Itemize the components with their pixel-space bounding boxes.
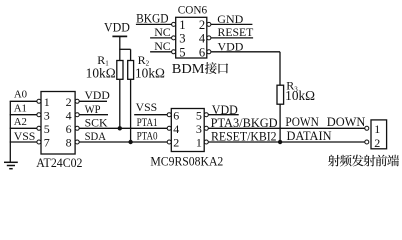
connector CON6 body <box>176 17 207 58</box>
wire VDD bar to R1 top <box>119 36 121 60</box>
pin circle 6 <box>75 126 79 130</box>
pin circle 4 <box>207 36 211 40</box>
wire VSS stub MCU <box>134 114 167 116</box>
pin circle 4 <box>75 113 79 117</box>
svg-text:3: 3 <box>44 108 50 122</box>
svg-text:5: 5 <box>179 46 185 60</box>
svg-text:NC: NC <box>154 25 171 39</box>
pin circle 2 <box>207 22 211 26</box>
junction R3-DATAIN <box>278 140 282 144</box>
pin circle 3 <box>37 113 41 117</box>
wire down to R2 top <box>130 49 132 61</box>
svg-text:BDM: BDM <box>172 62 205 77</box>
svg-text:VSS: VSS <box>136 102 158 114</box>
svg-text:5: 5 <box>44 122 50 136</box>
svg-text:2: 2 <box>199 18 205 32</box>
svg-text:POWN: POWN <box>285 115 319 129</box>
svg-text:DOWN: DOWN <box>327 115 366 129</box>
svg-text:7: 7 <box>44 136 50 150</box>
wire R3 to RESET/KBI2 net <box>279 104 281 142</box>
pin circle 3 <box>172 36 176 40</box>
wire SDA to MCU PTA0 <box>79 141 167 143</box>
svg-text:2: 2 <box>66 95 72 109</box>
svg-text:1: 1 <box>44 95 50 109</box>
svg-text:6: 6 <box>173 108 179 122</box>
svg-text:3: 3 <box>179 32 185 46</box>
connector J1 RF body <box>371 120 387 149</box>
svg-text:CON6: CON6 <box>178 5 208 17</box>
pin circle 8 <box>75 140 79 144</box>
svg-text:2: 2 <box>173 136 179 150</box>
svg-text:1: 1 <box>179 18 185 32</box>
svg-text:RESET: RESET <box>218 25 254 39</box>
wire PTA3 to RF pin1 (POWN DOWN) <box>208 127 364 129</box>
svg-text:10kΩ: 10kΩ <box>285 88 315 103</box>
wire GND stub <box>211 23 253 25</box>
resistor R1 body <box>117 61 123 80</box>
svg-text:A0: A0 <box>14 89 27 101</box>
wire VDD to R3 <box>211 51 280 53</box>
wire R1 to SCK net <box>119 79 121 128</box>
svg-text:A1: A1 <box>14 103 27 115</box>
wire A0 stub <box>10 100 37 102</box>
pin circle 2 <box>75 99 79 103</box>
junction R1-SCK <box>118 126 122 130</box>
svg-text:SCK: SCK <box>85 115 108 129</box>
IC U1 AT24C02 body <box>41 92 75 155</box>
svg-text:A2: A2 <box>14 116 27 128</box>
wire RESET/KBI2 to RF pin2 (DATAIN) <box>208 141 364 143</box>
pin circle RF 2 <box>365 140 369 144</box>
pin circle 5 <box>37 126 41 130</box>
pin circle RF 1 <box>365 126 369 130</box>
svg-text:1: 1 <box>196 136 202 150</box>
svg-text:6: 6 <box>199 46 205 60</box>
svg-text:SDA: SDA <box>85 129 107 143</box>
wire SCK to MCU PTA1 <box>79 127 167 129</box>
IC U2 MC9RS08KA2 body <box>171 109 204 152</box>
wire VSS stub <box>10 141 37 143</box>
pin circle 5 <box>204 113 208 117</box>
svg-text:WP: WP <box>85 102 101 116</box>
svg-text:1: 1 <box>374 122 380 136</box>
wire A2 stub <box>10 127 37 129</box>
pin circle 6 <box>207 50 211 54</box>
wire branch to R2 <box>119 48 130 50</box>
pin circle 6 <box>167 113 171 117</box>
wire RESET stub <box>211 37 253 39</box>
svg-text:10kΩ: 10kΩ <box>86 66 116 81</box>
svg-text:4: 4 <box>199 32 206 46</box>
svg-text:PTA0: PTA0 <box>137 131 158 143</box>
label RF transmit front-end <box>328 155 340 167</box>
wire A1 stub <box>10 114 37 116</box>
svg-text:BKGD: BKGD <box>136 11 169 25</box>
junction R2-SDA <box>128 140 132 144</box>
svg-text:AT24C02: AT24C02 <box>36 155 82 170</box>
wire down to R3 top <box>279 52 281 85</box>
resistor R2 body <box>128 61 134 80</box>
wire VDD stub <box>79 100 107 102</box>
pin circle 3 <box>204 126 208 130</box>
svg-text:10kΩ: 10kΩ <box>135 66 165 81</box>
wire ground bus A0 A1 A2 VSS to ground <box>9 101 11 162</box>
pin circle 1 <box>172 22 176 26</box>
wire WP stub <box>79 114 108 116</box>
resistor R3 body <box>277 85 284 104</box>
pin circle 7 <box>37 140 41 144</box>
svg-text:3: 3 <box>196 122 202 136</box>
pin circle 5 <box>172 50 176 54</box>
ground <box>4 161 18 163</box>
svg-text:4: 4 <box>173 122 179 136</box>
svg-text:VSS: VSS <box>14 129 36 143</box>
svg-text:VDD: VDD <box>104 21 130 35</box>
wire NC stub pin3 <box>150 37 172 39</box>
svg-text:5: 5 <box>196 108 202 122</box>
svg-text:4: 4 <box>66 108 72 122</box>
svg-text:MC9RS08KA2: MC9RS08KA2 <box>150 155 223 169</box>
wire VDD stub MCU <box>208 114 238 116</box>
wire R2 to SDA net <box>130 79 132 142</box>
svg-text:NC: NC <box>154 39 171 53</box>
svg-text:PTA1: PTA1 <box>137 117 158 129</box>
pin circle 4 <box>167 126 171 130</box>
svg-text:DATAIN: DATAIN <box>287 129 332 143</box>
wire BKGD stub <box>136 23 172 25</box>
svg-text:VDD: VDD <box>85 88 111 102</box>
svg-text:8: 8 <box>66 136 72 150</box>
svg-text:2: 2 <box>374 136 380 150</box>
svg-text:6: 6 <box>66 122 72 136</box>
wire NC stub pin5 <box>150 51 172 53</box>
svg-text:RESET/KBI2: RESET/KBI2 <box>211 129 277 143</box>
pin circle 1 <box>204 140 208 144</box>
label BDM interface CJK 接口 <box>205 62 217 74</box>
pin circle 2 <box>167 140 171 144</box>
pin circle 1 <box>37 99 41 103</box>
